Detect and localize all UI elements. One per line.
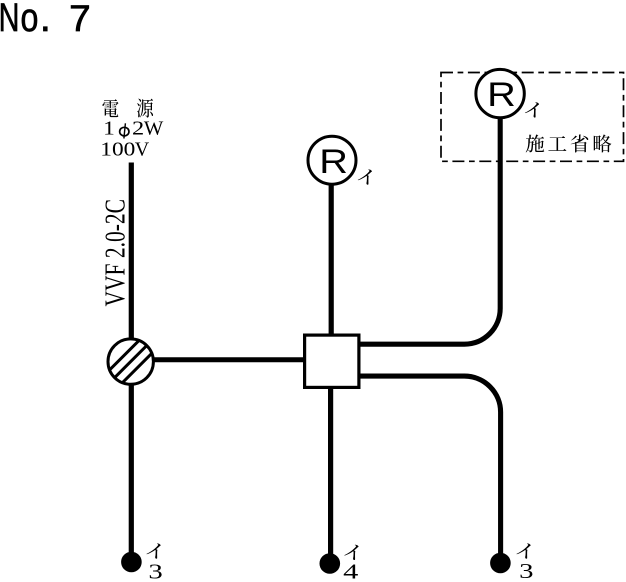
label イ (top-right lamp) <box>525 102 539 117</box>
title No. 7 <box>0 0 91 40</box>
wire: junction box to top-right lamp (curved) <box>359 119 500 345</box>
svg-text:7: 7 <box>69 0 91 39</box>
label イ (middle lamp) <box>358 169 372 184</box>
svg-text:o: o <box>21 0 39 40</box>
svg-text:W: W <box>144 119 164 140</box>
svg-text:3: 3 <box>148 560 162 582</box>
junction box <box>305 335 359 387</box>
svg-text:1: 1 <box>103 119 115 140</box>
wire: source drop (left vertical) <box>129 163 134 561</box>
terminal dot (bottom middle) <box>320 553 341 574</box>
svg-text:R: R <box>487 76 516 114</box>
terminal dot (bottom right) <box>490 553 511 574</box>
svg-text:V: V <box>135 138 150 160</box>
svg-text:VVF 2.0-2C: VVF 2.0-2C <box>101 199 132 307</box>
power source entry point (hatched circle) <box>101 332 161 392</box>
svg-text:3: 3 <box>519 559 533 582</box>
label 100V <box>100 138 149 160</box>
svg-text:R: R <box>319 143 348 181</box>
phi symbol <box>120 123 129 138</box>
lamp R (top right, in omitted area), mark イ <box>476 69 524 117</box>
label イ 3 (bottom right) <box>516 543 533 582</box>
terminal dot (bottom left) <box>121 552 142 573</box>
wire: source to junction box (horizontal) <box>131 357 306 362</box>
svg-text:100: 100 <box>100 138 135 160</box>
wire: junction box to bottom-right terminal (curved) <box>359 376 501 560</box>
svg-text:.: . <box>40 0 51 40</box>
svg-text:4: 4 <box>343 560 359 582</box>
wire: junction box to bottom middle terminal <box>328 387 333 560</box>
lamp R (middle), mark イ <box>308 136 356 184</box>
label 電源 (power source) <box>102 99 153 118</box>
label イ 4 (bottom middle) <box>343 545 359 582</box>
svg-text:N: N <box>0 0 19 40</box>
label 1phi2W <box>103 119 164 140</box>
label 施工省略 (construction omitted) <box>526 135 612 153</box>
wire: middle lamp to junction box <box>329 183 334 340</box>
dashed boundary box (construction omitted area) <box>441 73 624 162</box>
svg-text:2: 2 <box>132 119 144 140</box>
label イ 3 (bottom left) <box>146 543 162 582</box>
